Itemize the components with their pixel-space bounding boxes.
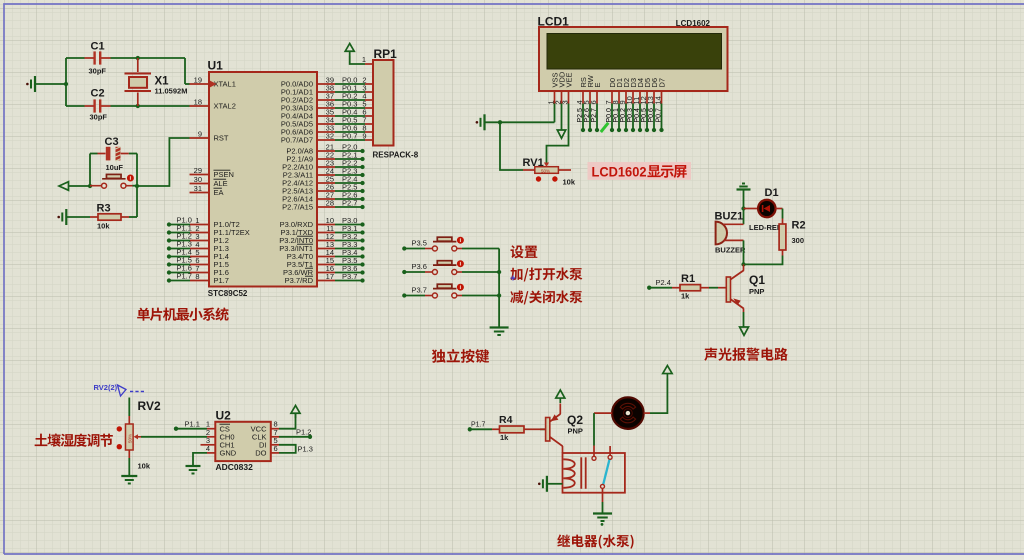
wire [500, 122, 523, 170]
ground (RV2) [121, 476, 137, 484]
resistor R2 (300) [779, 219, 805, 256]
svg-text:14: 14 [653, 96, 662, 104]
annotation 独立按键 [432, 349, 489, 363]
svg-text:XTAL2: XTAL2 [214, 102, 236, 111]
wire [404, 248, 425, 250]
svg-text:9: 9 [362, 132, 366, 141]
wire [129, 216, 137, 218]
wire P0.6 [335, 124, 365, 133]
node P3.7 (button input) [402, 286, 427, 298]
svg-text:R2: R2 [792, 220, 806, 232]
node P3.7 [335, 272, 365, 283]
node (rail P3.7) [497, 293, 501, 297]
probe mark (green tick) [601, 123, 609, 132]
annotation 单片机最小系统 [137, 307, 229, 320]
svg-text:P0.4: P0.4 [634, 108, 641, 123]
wire [279, 445, 296, 453]
ground (crystal rail) [26, 76, 35, 92]
push button P3.7 [425, 284, 464, 298]
wire [404, 295, 425, 297]
svg-text:30: 30 [194, 175, 202, 184]
wire P0.7 [335, 132, 365, 141]
svg-text:RP1: RP1 [374, 47, 398, 61]
annotation 减/关闭水泵 [510, 291, 582, 305]
svg-text:28: 28 [326, 199, 334, 208]
wire [176, 428, 207, 430]
crystal X1 [125, 58, 188, 106]
svg-text:P0.7: P0.7 [655, 108, 662, 123]
node P1.1 [167, 224, 192, 235]
ground (relay switch) [593, 514, 612, 526]
svg-text:P0.1: P0.1 [613, 108, 620, 123]
node P2.3 [335, 167, 365, 178]
annotation 继电器(水泵) [557, 534, 633, 548]
node P1.7 [167, 272, 192, 283]
wire [35, 83, 66, 85]
node (rail P3.6) [497, 270, 501, 274]
push button (reset) [90, 174, 134, 188]
node (LED branch) [741, 206, 745, 210]
wire [169, 224, 190, 226]
buzzer BUZ1 [715, 211, 746, 255]
svg-text:D1: D1 [765, 187, 779, 199]
wire [69, 185, 91, 187]
svg-text:10k: 10k [97, 222, 110, 231]
wire [137, 138, 190, 186]
push button P3.6 [425, 260, 464, 274]
transistor Q1 PNP [718, 264, 765, 327]
svg-text:6: 6 [274, 444, 278, 453]
svg-text:P1.7: P1.7 [471, 422, 486, 429]
wire [169, 256, 190, 258]
node (Q1 collector net) [741, 262, 745, 266]
node P3.3 [335, 240, 365, 251]
svg-text:P3.7: P3.7 [342, 272, 357, 281]
wire (R2 to emitter node) [744, 256, 783, 265]
svg-text:8: 8 [195, 272, 199, 281]
wire P0.1 [335, 84, 365, 93]
svg-text:1k: 1k [500, 433, 509, 442]
LED D1 LED-RED [744, 187, 783, 232]
svg-text:ALE: ALE [214, 179, 228, 188]
svg-text:P2.6: P2.6 [584, 108, 591, 123]
svg-text:9: 9 [198, 130, 202, 139]
wire [66, 216, 90, 218]
wire [129, 153, 137, 155]
node P3.5 (button input) [402, 239, 427, 251]
capacitor C1 [85, 41, 111, 76]
node P2.2 [335, 159, 365, 170]
potentiometer RV2 (10k) [117, 399, 161, 471]
node P3.2 [335, 232, 365, 243]
resistor R4 (1k) [492, 414, 540, 442]
svg-text:P0.7: P0.7 [342, 132, 357, 141]
svg-text:50%: 50% [541, 169, 550, 174]
svg-text:R3: R3 [97, 203, 111, 215]
wire [485, 121, 555, 123]
svg-text:P0.7/AD7: P0.7/AD7 [281, 136, 313, 145]
wire [540, 428, 546, 430]
annotation 土壤湿度调节 [35, 433, 113, 446]
node P2.7 [591, 104, 599, 133]
wire [169, 280, 190, 282]
node (reset left) [88, 184, 92, 188]
svg-text:P0.6: P0.6 [648, 108, 655, 123]
wire P0.3 [335, 100, 365, 109]
svg-text:E: E [593, 82, 602, 87]
node (rail-ground junction) [64, 82, 68, 86]
svg-text:32: 32 [326, 132, 334, 141]
node P1.3 [298, 444, 313, 453]
svg-text:P1.7: P1.7 [177, 272, 192, 281]
resistor R3 (10k) [90, 203, 129, 231]
power terminal (RP1) [345, 44, 354, 57]
svg-text:STC89C52: STC89C52 [208, 289, 248, 298]
svg-text:XTAL1: XTAL1 [214, 80, 236, 89]
node P2.5 [577, 104, 585, 133]
transistor Q2 PNP [540, 404, 583, 454]
node P2.7 [335, 199, 365, 210]
wire P0.2 [335, 92, 365, 101]
svg-text:ADC0832: ADC0832 [216, 462, 254, 472]
node P3.1 [335, 224, 365, 235]
node P0.6 (LCD) [648, 104, 656, 133]
svg-text:VEE: VEE [565, 72, 574, 87]
svg-text:RESPACK-8: RESPACK-8 [373, 151, 419, 160]
wire [404, 271, 425, 273]
wire [462, 295, 499, 297]
wire [462, 248, 499, 250]
wire [350, 56, 365, 64]
LCD display LCD1 LCD1602 [538, 15, 728, 105]
node P1.3 [167, 240, 192, 251]
svg-text:1: 1 [362, 55, 366, 64]
svg-text:10k: 10k [563, 178, 576, 187]
wire [90, 153, 98, 155]
svg-text:P3.7: P3.7 [412, 286, 427, 295]
svg-text:LCD1602: LCD1602 [676, 19, 711, 28]
annotation 声光报警电路 [704, 348, 788, 361]
ADC U2 ADC0832 [201, 409, 280, 473]
svg-text:C1: C1 [91, 41, 105, 53]
svg-text:P1.2: P1.2 [296, 428, 311, 437]
wire [169, 240, 190, 242]
wire (motor to power) [650, 379, 667, 414]
node P0.1 (LCD) [613, 104, 621, 133]
wire [169, 248, 190, 250]
svg-text:PSEN: PSEN [214, 170, 234, 179]
svg-text:DO: DO [255, 449, 266, 458]
svg-text:EA: EA [214, 188, 224, 197]
svg-text:U1: U1 [208, 59, 224, 73]
ground (buttons) [490, 328, 509, 336]
svg-text:17: 17 [326, 272, 334, 281]
node P2.6 [335, 191, 365, 202]
power terminal (VDD down arrow) [557, 104, 565, 139]
svg-text:30pF: 30pF [90, 113, 108, 122]
node P2.5 [335, 183, 365, 194]
svg-text:P0.3: P0.3 [627, 108, 634, 123]
wire (to XTAL1) [185, 58, 190, 84]
svg-text:10k: 10k [138, 462, 151, 471]
power terminal (motor) [663, 366, 672, 379]
wire [66, 105, 85, 107]
node P1.0 [167, 216, 192, 227]
wire [462, 271, 499, 273]
node P1.1 [174, 420, 200, 431]
wire VEE to RV1 wiper [547, 104, 569, 163]
wire VSS [554, 104, 556, 123]
svg-text:C2: C2 [91, 88, 105, 100]
svg-text:P2.7: P2.7 [591, 108, 598, 123]
wire [602, 502, 604, 514]
svg-text:P3.7/RD: P3.7/RD [285, 276, 314, 285]
wire [279, 436, 310, 438]
svg-text:1k: 1k [681, 292, 690, 301]
svg-text:11.0592M: 11.0592M [155, 87, 188, 96]
wire [133, 185, 138, 187]
node P2.1 [335, 151, 365, 162]
wire (RV2 top) [128, 398, 130, 417]
node P0.3 (LCD) [627, 104, 635, 133]
wire P0.0 [335, 76, 365, 85]
microcontroller U1 STC89C52 [190, 59, 336, 299]
svg-text:LED-RED: LED-RED [749, 223, 783, 232]
node P2.0 [335, 143, 365, 154]
node P1.4 [167, 248, 192, 259]
svg-text:U2: U2 [216, 409, 232, 423]
svg-text:P1.1: P1.1 [185, 420, 200, 429]
power terminal (Q2 emitter) [556, 390, 565, 403]
node P3.5 [335, 256, 365, 267]
power terminal (U2 VCC) [291, 406, 300, 419]
motor (pump) [594, 397, 650, 429]
ground (R3) [57, 209, 66, 225]
resistor R1 (1k) [672, 273, 709, 301]
wire [547, 483, 563, 485]
node P3.6 (button input) [402, 262, 427, 274]
svg-text:P1.7: P1.7 [214, 276, 229, 285]
svg-text:P2.7/A15: P2.7/A15 [282, 203, 313, 212]
capacitor C2 [85, 88, 111, 122]
wire [66, 57, 85, 59]
annotation 设置 [510, 245, 537, 258]
node P1.6 [167, 264, 192, 275]
node P0.0 (LCD) [606, 104, 614, 133]
node P1.2 [296, 428, 312, 439]
node (X1 top) [136, 56, 140, 60]
node P3.6 [335, 264, 365, 275]
wire [649, 287, 672, 289]
wire (C3/R3 right rail) [136, 154, 138, 218]
svg-text:P3.6: P3.6 [412, 262, 427, 271]
node P1.2 [167, 232, 192, 243]
svg-text:C3: C3 [105, 136, 119, 148]
ground (relay coil) [538, 476, 547, 492]
node P1.7 [468, 422, 486, 432]
svg-text:LCD1602: LCD1602 [592, 164, 647, 180]
svg-text:50%: 50% [128, 434, 133, 443]
annotation RV2(2) [94, 383, 147, 396]
wire [169, 272, 190, 274]
svg-text:BUZZER: BUZZER [715, 246, 746, 255]
svg-text:P2.4: P2.4 [656, 278, 671, 287]
wire (wiper to CH0) [141, 436, 207, 438]
wire (buzzer to node) [743, 240, 745, 264]
ground (LCD VSS) [476, 114, 485, 130]
svg-text:P0.0: P0.0 [606, 108, 613, 123]
wire [193, 453, 207, 466]
node P1.5 [167, 256, 192, 267]
svg-text:RST: RST [214, 134, 229, 143]
svg-text:R4: R4 [499, 414, 513, 426]
node P2.6 [584, 104, 592, 133]
power terminal (left arrow) [59, 182, 69, 191]
node P3.0 [335, 216, 365, 227]
svg-text:P0.5: P0.5 [641, 108, 648, 123]
node (reset right) [135, 184, 139, 188]
annotation 加/打开水泵 [510, 268, 582, 282]
svg-text:P1.3: P1.3 [298, 444, 313, 453]
svg-text:PNP: PNP [568, 427, 583, 436]
svg-text:R1: R1 [681, 273, 695, 285]
svg-text:10uF: 10uF [106, 163, 124, 172]
wire (LED to R2) [782, 209, 784, 219]
svg-text:GND: GND [220, 449, 237, 458]
svg-text:Q2: Q2 [567, 413, 583, 427]
svg-text:Q1: Q1 [749, 273, 765, 287]
svg-text:RV2: RV2 [138, 399, 161, 413]
svg-text:4: 4 [206, 444, 210, 453]
ground terminal (Q1 emitter arrow) [740, 327, 749, 335]
svg-text:P2.5: P2.5 [577, 108, 584, 123]
annotation LCD1602 label [588, 162, 692, 180]
svg-text:RV2(2): RV2(2) [94, 383, 118, 392]
svg-text:30pF: 30pF [89, 67, 107, 76]
wire (gnd to buzzer/LED) [743, 190, 745, 225]
node P0.4 (LCD) [634, 104, 642, 133]
wire P0.4 [335, 108, 365, 117]
wire (button common rail) [498, 249, 500, 328]
svg-text:31: 31 [194, 184, 202, 193]
svg-text:18: 18 [194, 98, 202, 107]
node P0.2 (LCD) [620, 104, 628, 133]
wire [709, 287, 718, 289]
node (X1 bottom) [136, 104, 140, 108]
svg-text:P3.5: P3.5 [412, 239, 427, 248]
wire [111, 57, 186, 59]
wire [279, 413, 296, 429]
node (VSS/RV1) [498, 120, 502, 124]
capacitor C3 (10uF) [98, 136, 129, 172]
wire (C3 left rail) [89, 154, 91, 187]
svg-text:D7: D7 [658, 78, 667, 88]
resistor pack RP1 RESPACK-8 [362, 47, 419, 160]
wire [169, 264, 190, 266]
potentiometer RV1 (10k) [523, 157, 576, 187]
wire (motor to switch) [593, 413, 595, 445]
node P0.5 (LCD) [641, 104, 649, 133]
svg-text:300: 300 [792, 236, 805, 245]
relay RL (coil + switch) [563, 446, 625, 503]
node P0.7 (LCD) [655, 104, 663, 133]
ground (U2 GND) [186, 466, 201, 474]
node P3.4 [335, 248, 365, 259]
wire (rail C1/C2 left) [65, 58, 67, 106]
node P2.4 [335, 175, 365, 186]
wire [470, 428, 492, 430]
svg-text:29: 29 [194, 166, 202, 175]
svg-text:P2.7: P2.7 [342, 199, 357, 208]
wire [111, 105, 190, 107]
node P2.4 [647, 278, 671, 290]
wire P0.5 [335, 116, 365, 125]
push button P3.5 [425, 237, 464, 251]
ground (alarm, flipped) [737, 184, 751, 190]
origin marker [511, 276, 516, 281]
svg-text:PNP: PNP [749, 287, 764, 296]
svg-text:BUZ1: BUZ1 [715, 211, 744, 223]
svg-text:19: 19 [194, 76, 202, 85]
svg-text:P0.2: P0.2 [620, 108, 627, 123]
wire [169, 232, 190, 234]
wire (RV2 bottom) [128, 458, 130, 476]
